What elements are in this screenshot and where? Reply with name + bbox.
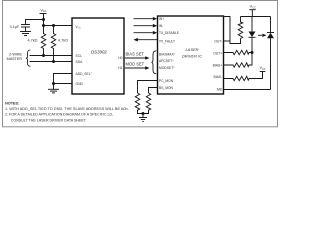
wire SCL <box>30 55 72 57</box>
power VCC (top left) <box>40 14 46 26</box>
laser diode D1 <box>249 17 256 53</box>
junction dots <box>42 18 55 85</box>
svg-text:MOD SET: MOD SET <box>126 62 145 67</box>
svg-text:0.1µF: 0.1µF <box>10 25 20 29</box>
wire TX_DISABLE <box>134 31 158 35</box>
svg-text:BIAS+: BIAS+ <box>213 64 223 68</box>
svg-text:OUT-: OUT- <box>214 39 222 43</box>
node: OUT+/laser/BIAS+ <box>251 51 254 54</box>
wire ADD_SEL to gnd <box>54 74 73 84</box>
svg-text:DS3902: DS3902 <box>91 49 107 54</box>
arrow H1 MOD SET <box>125 62 150 70</box>
wire OUT- <box>224 40 230 42</box>
monitor resistor network <box>135 81 157 122</box>
node: SDA/R2 <box>52 60 55 63</box>
VCC rail (right) <box>241 16 271 18</box>
svg-text:TX_FAULT: TX_FAULT <box>159 39 175 43</box>
VCC rail to DS3902 <box>44 25 73 27</box>
svg-text:APCSET2: APCSET2 <box>159 59 174 63</box>
svg-text:1. WITH ADD_SEL TIED TO GND, T: 1. WITH ADD_SEL TIED TO GND, THE SLAVE A… <box>5 107 129 111</box>
photodiode D2 <box>267 17 274 90</box>
IC U1 DS3902 <box>72 18 124 94</box>
wire IN+ <box>134 17 158 21</box>
IC U2 laser driver <box>158 16 224 94</box>
wire BIAS+ / resistor R7 <box>224 53 252 68</box>
resistor R5 <box>135 93 143 114</box>
laser diode triangle <box>249 32 256 38</box>
node: cap/VCC <box>42 18 45 21</box>
ground (DS3902 GND/ADD_SEL) <box>49 84 59 93</box>
node: monitor resistors join <box>142 112 145 115</box>
svg-text:BIAS-: BIAS- <box>213 75 222 79</box>
wire cap to VCC node <box>26 19 44 21</box>
right side network <box>224 10 274 90</box>
svg-text:PC_MON: PC_MON <box>159 79 174 83</box>
node: rail/R1 <box>42 24 45 27</box>
power VCC (bias) <box>260 71 266 73</box>
svg-text:BIASMAX2: BIASMAX2 <box>159 53 176 57</box>
svg-text:DRIVER IC: DRIVER IC <box>182 54 202 59</box>
wire BIAS- / resistor R8 <box>224 72 263 81</box>
ground (monitor) <box>139 114 147 122</box>
brace (BIASMAX/APCSET/MODSET pins) <box>151 51 156 74</box>
svg-text:CONSULT THE LASER DRIVER DATA: CONSULT THE LASER DRIVER DATA SHEET. <box>11 118 87 122</box>
svg-text:MD: MD <box>217 87 223 91</box>
photodiode triangle <box>267 33 274 39</box>
svg-text:BS_MON: BS_MON <box>159 86 174 90</box>
svg-text:4.7kΩ: 4.7kΩ <box>27 38 37 42</box>
brace 2-wire master <box>26 50 30 66</box>
ground (under capacitor) <box>21 32 31 36</box>
wire MD <box>224 89 271 91</box>
wire BS_MON <box>149 88 158 94</box>
node: SCL/R1 <box>42 54 45 57</box>
svg-text:2. FOR A DETAILED APPLICATION: 2. FOR A DETAILED APPLICATION DIAGRAM OF… <box>5 113 113 117</box>
wire GND pin <box>54 83 73 85</box>
wire SDA <box>30 61 72 63</box>
svg-text:2-WIRE: 2-WIRE <box>9 52 22 56</box>
arrow H0 BIAS SET <box>125 51 150 59</box>
svg-text:MODSET2: MODSET2 <box>159 66 175 70</box>
svg-text:4.7kΩ: 4.7kΩ <box>58 38 68 42</box>
node: rail/R2 <box>52 24 55 27</box>
svg-text:TX_DISABLE: TX_DISABLE <box>159 31 180 35</box>
resistor R3 (OUT- pullup) <box>238 17 242 39</box>
wire OUT- jog to resistor <box>224 17 241 44</box>
svg-text:MASTER: MASTER <box>7 57 23 61</box>
svg-text:GND: GND <box>76 82 84 86</box>
resistor R1 4.7k (SCL pullup) <box>41 26 45 56</box>
node: ADD_SEL/GND <box>52 82 55 85</box>
resistor R6 <box>143 93 151 114</box>
svg-text:LASER: LASER <box>185 47 198 52</box>
svg-text:H1: H1 <box>118 66 122 70</box>
wire TX_FAULT (output) <box>134 38 158 42</box>
wire PC_MON <box>138 81 158 94</box>
wire IN- <box>134 24 158 28</box>
svg-text:ADD_SEL1: ADD_SEL1 <box>76 72 93 76</box>
svg-text:H0: H0 <box>118 56 122 60</box>
svg-text:IN+: IN+ <box>159 17 164 21</box>
svg-text:BIAS SET: BIAS SET <box>126 51 145 56</box>
svg-text:SDA: SDA <box>76 60 84 64</box>
wire OUT+ / resistor R4 <box>224 50 252 54</box>
svg-text:OUT+: OUT+ <box>213 51 222 55</box>
svg-text:SCL: SCL <box>76 54 83 58</box>
resistor R2 4.7k (SDA pullup) <box>51 26 55 62</box>
capacitor C1 0.1uF <box>22 20 30 32</box>
svg-text:IN-: IN- <box>159 24 163 28</box>
border frame <box>3 1 278 127</box>
power VCC (laser) <box>249 10 255 17</box>
svg-text:NOTES:: NOTES: <box>5 101 19 105</box>
light arrow (dashed) <box>258 34 267 37</box>
